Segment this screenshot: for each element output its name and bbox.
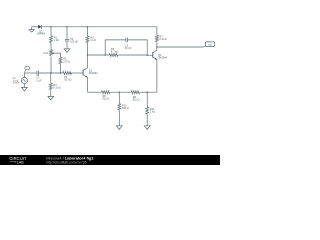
node top-rail / C2 junction [66,26,67,27]
output node flag [204,42,215,47]
node rail right junction [146,91,147,92]
resistor R4 (Q1 collector load) [86,36,89,43]
transistor Q1 [83,68,87,78]
ground below C2 [64,49,70,53]
label R2 value [63,58,70,64]
label R8 value [103,95,110,101]
wire R6 to Q1 base [70,72,84,74]
wire R4 to Q1 collector [87,43,89,68]
wire collector tap to node A [88,54,106,56]
resistor R9 (rail right) [131,91,140,94]
wire C3 to base junction [128,40,148,55]
svg-text:2.4 kΩ: 2.4 kΩ [159,38,166,41]
input rail wire V1 to C1 [24,72,37,74]
wire ground to diode anode [32,26,39,28]
capacitor C3 (feedback) [126,38,128,43]
wire output [157,46,204,48]
label R3 value [53,84,60,90]
wire Q1 emitter to bottom rail [87,77,89,92]
wire R11 from rail [146,92,148,107]
wire rail to R1 [50,27,52,36]
svg-text:1 kΩ: 1 kΩ [54,39,59,42]
node input rail / R2 junction [60,72,61,73]
svg-text:1 kΩ: 1 kΩ [150,110,155,113]
capacitor C2 (decoupling) [65,40,69,41]
capacitor C1 (input coupling) [37,71,39,76]
wire Pot1 bottom to input rail [50,57,52,74]
label C1 value [36,77,42,83]
node A junction [104,54,105,55]
svg-text:2 kΩ: 2 kΩ [90,39,95,42]
svg-text:9.1 kΩ: 9.1 kΩ [53,86,60,89]
label R1 value [54,37,59,43]
wire C1 to R3 junction [39,72,63,74]
CircuitLab logo [9,156,27,164]
resistor R1 [50,36,53,43]
label D1 [37,30,46,35]
svg-text:Pot1: Pot1 [43,52,49,55]
node input rail / R3 junction [50,72,51,73]
label Q2 [158,54,167,60]
resistor R7 (Q2 collector load) [155,35,158,41]
svg-text:910 Ω: 910 Ω [133,99,140,102]
wire R11 to ground [146,114,148,126]
svg-text:910 Ω: 910 Ω [122,107,129,110]
label C2 value [70,38,78,44]
resistor R2 (wiper load) [59,57,62,64]
label R10 value [122,105,129,111]
potentiometer Pot1 [50,50,55,56]
ground below R3 [48,96,54,100]
wire node A up and right to C3 [105,40,126,55]
diode D1 [38,25,41,29]
resistor R11 (to ground) [146,107,149,114]
label R11 value [150,108,155,114]
label C3 value [125,45,132,51]
svg-text:1 kHz: 1 kHz [13,82,20,85]
svg-text:out: out [208,43,212,47]
wire rail right end [140,91,147,93]
resistor R8 (rail left) [101,91,110,94]
label R5 value [111,48,118,54]
wire C2 to ground [66,41,68,49]
svg-text:2N3904: 2N3904 [89,72,98,75]
wire rail to R4 [87,27,89,36]
wire R7 to Q2 collector [156,42,158,47]
svg-text:100 µF: 100 µF [70,41,78,44]
wire R10 to ground [118,110,120,126]
wire R3 to ground [50,90,52,97]
bottom emitter rail wire [88,91,102,93]
voltage probe flag on V1 [25,67,30,73]
wire R3 from rail [50,73,52,83]
wire R1 to Pot1 [50,43,52,50]
svg-text:http://circuitlab.com/c/e7p5: http://circuitlab.com/c/e7p5 [46,160,86,164]
label R6 value [64,76,71,82]
wire Q2 emitter down [147,60,157,92]
node rail / R10 junction [119,91,120,92]
svg-text:4.7 kΩ: 4.7 kΩ [111,50,118,53]
label V1 value [13,77,20,84]
wire rail to C2 [66,27,68,40]
node top-rail / R1 junction [50,26,51,27]
wire R2 to input rail [60,64,62,73]
wire rail middle [111,91,132,93]
svg-text:LAB: LAB [17,160,24,164]
svg-text:2N3904: 2N3904 [158,56,167,59]
resistor R6 (series base) [63,72,72,75]
resistor R5 (node A to base) [105,54,147,57]
wire base junction to Q2 base [147,54,153,56]
label R7 value [159,36,166,42]
svg-text:10 nF: 10 nF [125,47,132,50]
svg-text:1 µF: 1 µF [36,79,42,82]
resistor R10 (to ground) [118,104,121,111]
svg-text:9.1 kΩ: 9.1 kΩ [64,78,71,81]
wire R10 from rail [118,92,120,103]
wire top rail down to R7 [156,27,158,36]
ground flag left of diode [29,27,34,32]
top supply rail wire [42,26,157,28]
wire Pot1 wiper to R2 [55,53,61,57]
label R4 value [90,37,95,43]
resistor R3 (to ground) [49,83,52,90]
voltage source V1 [21,73,27,87]
svg-text:270 Ω: 270 Ω [63,60,70,63]
node Q1 collector / feedback tap [87,54,88,55]
ground below R11 [144,126,150,130]
label R9 value [133,96,140,102]
svg-text:910 Ω: 910 Ω [103,97,110,100]
ground below V1 [22,87,28,91]
node base junction Q2 [146,54,147,55]
label Q1 [89,70,98,76]
transistor Q2 [153,47,157,60]
svg-text:1N4004: 1N4004 [37,33,46,36]
node Q2 collector output junction [156,46,157,47]
ground below R10 [116,126,122,130]
node top-rail / R4 junction [87,26,88,27]
